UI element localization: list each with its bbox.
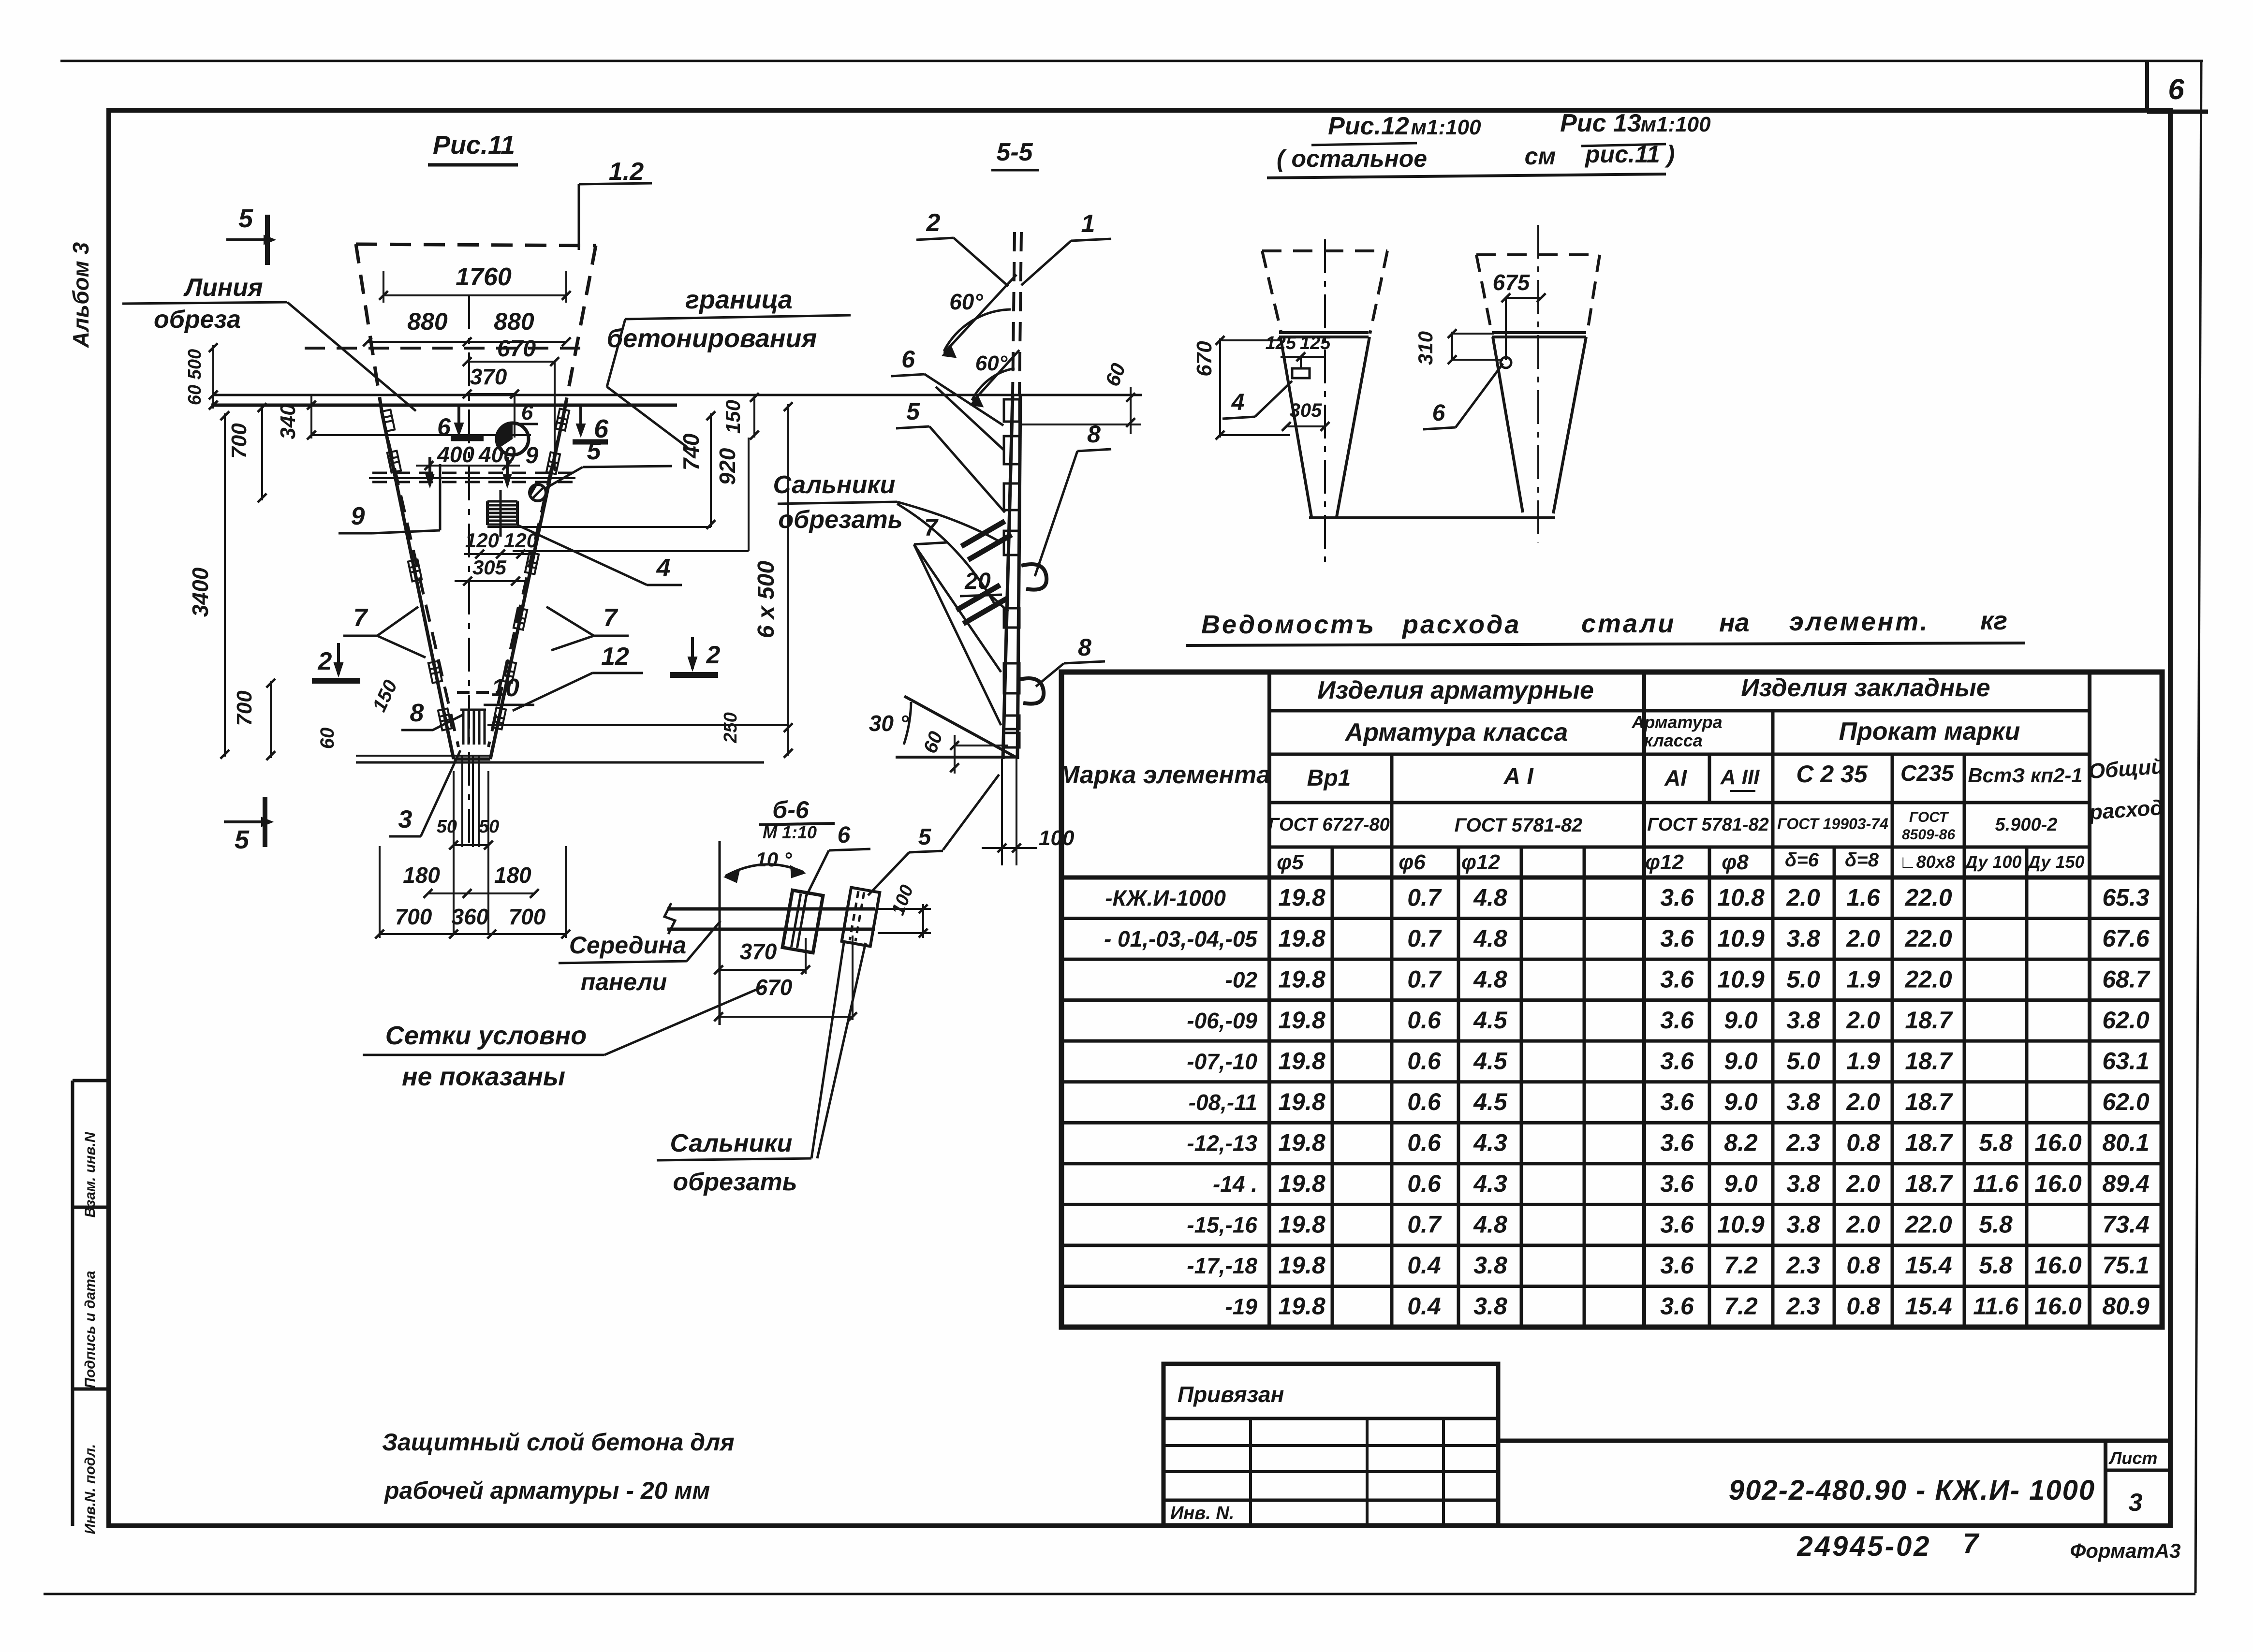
svg-text:1.9: 1.9 (1846, 1047, 1880, 1074)
svg-text:0.8: 0.8 (1846, 1129, 1880, 1156)
svg-text:-02: -02 (1225, 967, 1258, 992)
svg-text:Рис.11: Рис.11 (433, 131, 515, 160)
svg-text:Изделия арматурные: Изделия арматурные (1317, 676, 1594, 704)
svg-text:0.7: 0.7 (1407, 965, 1442, 993)
svg-text:3.8: 3.8 (1786, 1170, 1820, 1197)
svg-text:1760: 1760 (456, 263, 512, 291)
svg-text:18.7: 18.7 (1905, 1007, 1953, 1034)
svg-text:1.6: 1.6 (1846, 884, 1881, 911)
svg-text:2.0: 2.0 (1846, 1088, 1880, 1115)
svg-text:А I: А I (1503, 764, 1534, 789)
svg-text:Арматура класса: Арматура класса (1344, 718, 1568, 746)
svg-text:30 °: 30 ° (869, 711, 909, 736)
svg-text:180: 180 (494, 863, 531, 888)
svg-text:9: 9 (526, 443, 539, 468)
svg-text:3.6: 3.6 (1660, 1293, 1694, 1320)
svg-text:3.6: 3.6 (1660, 1088, 1694, 1115)
svg-text:310: 310 (1414, 331, 1437, 365)
svg-text:0.8: 0.8 (1846, 1252, 1880, 1279)
svg-text:10.9: 10.9 (1717, 925, 1765, 952)
svg-text:125: 125 (1266, 333, 1296, 353)
svg-text:11.6: 11.6 (1973, 1293, 2019, 1320)
svg-text:3.8: 3.8 (1786, 925, 1820, 952)
svg-text:7: 7 (604, 604, 618, 632)
svg-text:-12,-13: -12,-13 (1187, 1131, 1257, 1156)
svg-text:5.8: 5.8 (1979, 1129, 2013, 1156)
svg-text:0.7: 0.7 (1407, 1211, 1442, 1238)
svg-text:250: 250 (721, 712, 741, 743)
svg-text:22.0: 22.0 (1904, 1211, 1952, 1238)
svg-text:Сальники: Сальники (773, 471, 896, 499)
svg-text:4.5: 4.5 (1473, 1047, 1508, 1074)
svg-text:5.8: 5.8 (1979, 1252, 2013, 1279)
svg-text:11.6: 11.6 (1973, 1170, 2019, 1197)
svg-text:4.8: 4.8 (1473, 965, 1507, 993)
svg-text:15.4: 15.4 (1905, 1252, 1952, 1279)
svg-text:1: 1 (1081, 210, 1095, 238)
svg-text:18.7: 18.7 (1905, 1088, 1953, 1115)
svg-text:обрезать: обрезать (778, 506, 902, 534)
svg-text:Арматура: Арматура (1631, 712, 1722, 732)
svg-text:Прокат марки: Прокат марки (1839, 717, 2020, 746)
svg-text:Привязан: Привязан (1178, 1382, 1284, 1407)
svg-text:ГОСТ: ГОСТ (1909, 809, 1949, 825)
svg-text:6: 6 (521, 401, 533, 424)
svg-text:16.0: 16.0 (2034, 1170, 2082, 1197)
svg-text:9.0: 9.0 (1724, 1007, 1758, 1034)
svg-text:6 x 500: 6 x 500 (753, 561, 779, 638)
svg-text:19.8: 19.8 (1278, 965, 1325, 993)
svg-text:3.6: 3.6 (1660, 965, 1694, 993)
svg-text:902-2-480.90 - КЖ.И- 1000: 902-2-480.90 - КЖ.И- 1000 (1729, 1475, 2095, 1506)
svg-text:7.2: 7.2 (1724, 1252, 1758, 1279)
svg-text:0.6: 0.6 (1407, 1047, 1442, 1074)
svg-text:4.8: 4.8 (1473, 925, 1507, 952)
svg-text:60 500: 60 500 (185, 349, 205, 405)
svg-text:60: 60 (317, 728, 338, 749)
svg-text:расхода: расхода (1401, 610, 1521, 639)
svg-text:-15,-16: -15,-16 (1187, 1213, 1257, 1238)
svg-text:10.9: 10.9 (1717, 965, 1765, 993)
svg-text:700: 700 (395, 904, 432, 929)
svg-text:2.0: 2.0 (1846, 1007, 1880, 1034)
svg-text:305: 305 (472, 556, 507, 579)
svg-text:12: 12 (601, 643, 629, 671)
svg-text:2: 2 (926, 209, 941, 237)
svg-text:2.3: 2.3 (1786, 1293, 1820, 1320)
svg-text:Сетки условно: Сетки условно (385, 1021, 587, 1050)
svg-text:5.8: 5.8 (1979, 1211, 2013, 1238)
svg-text:0.7: 0.7 (1407, 925, 1442, 952)
svg-text:φ12: φ12 (1645, 850, 1684, 874)
svg-text:0.4: 0.4 (1407, 1293, 1441, 1320)
svg-text:19.8: 19.8 (1278, 884, 1325, 911)
svg-text:φ5: φ5 (1277, 850, 1304, 874)
svg-text:60°: 60° (949, 289, 983, 314)
svg-text:-КЖ.И-1000: -КЖ.И-1000 (1105, 885, 1226, 910)
svg-text:4.3: 4.3 (1473, 1129, 1507, 1156)
svg-text:0.6: 0.6 (1407, 1007, 1442, 1034)
svg-text:2.0: 2.0 (1846, 925, 1880, 952)
svg-text:Инв. N.: Инв. N. (1170, 1503, 1234, 1523)
svg-text:ГОСТ 5781-82: ГОСТ 5781-82 (1455, 815, 1583, 836)
svg-text:75.1: 75.1 (2102, 1252, 2149, 1279)
svg-text:4.8: 4.8 (1473, 1211, 1507, 1238)
svg-text:8: 8 (1078, 634, 1091, 661)
svg-text:δ=8: δ=8 (1845, 849, 1879, 871)
svg-text:Изделия закладные: Изделия закладные (1741, 674, 1990, 702)
svg-text:Подпись и дата: Подпись и дата (82, 1271, 98, 1388)
svg-text:м1:100: м1:100 (1411, 116, 1481, 139)
svg-text:6: 6 (1432, 400, 1445, 426)
svg-text:700: 700 (233, 690, 256, 726)
svg-text:С 2 35: С 2 35 (1796, 760, 1868, 788)
svg-text:ФорматА3: ФорматА3 (2070, 1539, 2180, 1562)
svg-text:10.8: 10.8 (1717, 884, 1765, 911)
svg-text:670: 670 (497, 336, 536, 362)
svg-text:ГОСТ 5781-82: ГОСТ 5781-82 (1647, 815, 1769, 835)
svg-text:4.5: 4.5 (1473, 1007, 1508, 1034)
svg-text:5-5: 5-5 (996, 138, 1033, 166)
svg-text:5: 5 (918, 824, 932, 850)
svg-text:панели: панели (581, 968, 667, 995)
svg-text:3.8: 3.8 (1786, 1211, 1820, 1238)
svg-text:2.0: 2.0 (1846, 1211, 1880, 1238)
svg-text:80.1: 80.1 (2102, 1129, 2149, 1156)
svg-text:Взам. инв.N: Взам. инв.N (82, 1131, 98, 1217)
svg-text:7: 7 (924, 514, 939, 541)
svg-text:стали: стали (1581, 609, 1676, 638)
svg-text:кг: кг (1980, 606, 2007, 635)
svg-text:5.0: 5.0 (1786, 965, 1820, 993)
svg-text:19.8: 19.8 (1278, 1129, 1325, 1156)
svg-text:граница: граница (685, 285, 793, 314)
svg-text:см: см (1525, 143, 1556, 170)
svg-text:АI: АI (1664, 765, 1687, 790)
svg-text:19.8: 19.8 (1278, 1170, 1325, 1197)
svg-text:-14 .: -14 . (1213, 1171, 1257, 1197)
svg-text:Защитный слой бетона для: Защитный слой бетона для (382, 1429, 735, 1456)
svg-text:6: 6 (2168, 73, 2184, 105)
svg-text:А III: А III (1720, 765, 1760, 789)
svg-text:3.6: 3.6 (1660, 925, 1694, 952)
svg-text:5: 5 (238, 204, 253, 233)
svg-text:19.8: 19.8 (1278, 925, 1325, 952)
svg-text:ГОСТ 19903-74: ГОСТ 19903-74 (1777, 815, 1888, 833)
svg-text:б-6: б-6 (772, 796, 810, 823)
svg-text:на: на (1719, 608, 1750, 637)
svg-text:740: 740 (678, 433, 704, 470)
svg-text:Рис.12: Рис.12 (1328, 112, 1409, 140)
svg-text:-08,-11: -08,-11 (1189, 1090, 1257, 1115)
svg-text:9.0: 9.0 (1724, 1088, 1758, 1115)
svg-text:0.7: 0.7 (1407, 884, 1442, 911)
svg-text:0.6: 0.6 (1407, 1129, 1442, 1156)
svg-text:-17,-18: -17,-18 (1187, 1253, 1257, 1278)
svg-text:М 1:10: М 1:10 (763, 822, 817, 842)
svg-text:( остальное: ( остальное (1277, 145, 1427, 172)
svg-text:Инв.N. подл.: Инв.N. подл. (82, 1444, 98, 1535)
svg-text:2.3: 2.3 (1786, 1252, 1820, 1279)
svg-text:рабочей арматуры - 20 мм: рабочей арматуры - 20 мм (383, 1477, 710, 1504)
svg-text:Середина: Середина (569, 932, 686, 959)
svg-text:4.8: 4.8 (1473, 884, 1507, 911)
svg-text:10.9: 10.9 (1717, 1211, 1765, 1238)
svg-text:3.8: 3.8 (1786, 1088, 1820, 1115)
svg-text:80.9: 80.9 (2102, 1293, 2150, 1320)
svg-text:65.3: 65.3 (2102, 884, 2150, 911)
svg-text:8509-86: 8509-86 (1902, 827, 1955, 843)
svg-text:360: 360 (452, 904, 489, 929)
svg-text:675: 675 (1493, 270, 1531, 295)
svg-text:19.8: 19.8 (1278, 1211, 1325, 1238)
svg-text:7: 7 (353, 604, 368, 632)
svg-text:0.4: 0.4 (1407, 1252, 1441, 1279)
svg-text:3400: 3400 (188, 567, 213, 617)
svg-text:15.4: 15.4 (1905, 1293, 1952, 1320)
svg-text:4.3: 4.3 (1473, 1170, 1507, 1197)
svg-text:10: 10 (491, 674, 519, 702)
svg-text:73.4: 73.4 (2102, 1211, 2149, 1238)
svg-text:670: 670 (755, 975, 793, 1000)
svg-text:Сальники: Сальники (670, 1129, 793, 1157)
svg-text:φ12: φ12 (1461, 850, 1500, 874)
svg-text:24945-02: 24945-02 (1797, 1531, 1931, 1562)
svg-text:3.8: 3.8 (1473, 1293, 1507, 1320)
svg-text:класса: класса (1644, 731, 1703, 750)
svg-text:Рис 13: Рис 13 (1560, 109, 1641, 137)
svg-text:1.2: 1.2 (609, 158, 644, 186)
svg-text:Линия: Линия (183, 274, 263, 302)
svg-text:Альбом 3: Альбом 3 (68, 242, 93, 349)
svg-text:670: 670 (1193, 341, 1216, 377)
svg-text:67.6: 67.6 (2102, 925, 2150, 952)
svg-text:6: 6 (594, 414, 609, 443)
svg-text:обреза: обреза (154, 306, 241, 334)
svg-text:4: 4 (1231, 390, 1245, 415)
svg-text:С235: С235 (1900, 760, 1954, 786)
svg-text:не показаны: не показаны (402, 1062, 565, 1091)
svg-text:125: 125 (1300, 333, 1331, 353)
svg-text:62.0: 62.0 (2102, 1088, 2150, 1115)
svg-text:3.6: 3.6 (1660, 1252, 1694, 1279)
svg-text:19.8: 19.8 (1278, 1047, 1325, 1074)
svg-text:16.0: 16.0 (2034, 1252, 2082, 1279)
svg-text:7: 7 (1963, 1528, 1980, 1559)
svg-text:5.0: 5.0 (1786, 1047, 1820, 1074)
svg-text:3.8: 3.8 (1786, 1007, 1820, 1034)
svg-text:370: 370 (740, 939, 777, 964)
svg-text:4.5: 4.5 (1473, 1088, 1508, 1115)
svg-text:22.0: 22.0 (1904, 965, 1952, 993)
svg-text:- 01,-03,-04,-05: - 01,-03,-04,-05 (1104, 926, 1258, 951)
svg-text:19.8: 19.8 (1278, 1088, 1325, 1115)
svg-text:9.0: 9.0 (1724, 1170, 1758, 1197)
svg-text:3.6: 3.6 (1660, 884, 1694, 911)
svg-text:бетонирования: бетонирования (607, 324, 817, 353)
svg-text:370: 370 (470, 364, 507, 389)
svg-text:-06,-09: -06,-09 (1187, 1008, 1257, 1033)
svg-text:9: 9 (351, 502, 365, 530)
svg-text:68.7: 68.7 (2102, 965, 2150, 993)
svg-text:22.0: 22.0 (1904, 884, 1952, 911)
svg-text:-19: -19 (1225, 1294, 1258, 1319)
svg-text:16.0: 16.0 (2034, 1293, 2082, 1320)
svg-text:5: 5 (235, 825, 250, 854)
svg-text:Марка элемента: Марка элемента (1059, 761, 1270, 789)
svg-text:700: 700 (509, 904, 546, 929)
svg-text:19.8: 19.8 (1278, 1252, 1325, 1279)
svg-text:м1:100: м1:100 (1640, 113, 1711, 136)
svg-text:5.900-2: 5.900-2 (1995, 815, 2058, 835)
svg-text:ВстЗ кп2-1: ВстЗ кп2-1 (1968, 764, 2082, 787)
svg-text:Лист: Лист (2108, 1448, 2158, 1468)
svg-text:δ=6: δ=6 (1785, 849, 1819, 871)
svg-text:18.7: 18.7 (1905, 1047, 1953, 1074)
svg-text:φ8: φ8 (1722, 850, 1749, 874)
svg-text:880: 880 (407, 308, 448, 335)
svg-text:3: 3 (398, 805, 412, 833)
svg-text:0.6: 0.6 (1407, 1170, 1442, 1197)
svg-text:700: 700 (227, 423, 251, 459)
svg-text:4: 4 (656, 554, 671, 582)
svg-text:2.3: 2.3 (1786, 1129, 1820, 1156)
svg-text:18.7: 18.7 (1905, 1170, 1953, 1197)
svg-text:8: 8 (410, 699, 424, 727)
svg-text:3.6: 3.6 (1660, 1007, 1694, 1034)
svg-text:305: 305 (1290, 400, 1322, 421)
svg-text:элемент.: элемент. (1789, 607, 1929, 636)
svg-text:120: 120 (465, 529, 499, 552)
svg-text:-07,-10: -07,-10 (1187, 1049, 1257, 1074)
svg-text:3.6: 3.6 (1660, 1170, 1694, 1197)
svg-text:6: 6 (838, 822, 851, 848)
svg-text:89.4: 89.4 (2102, 1170, 2149, 1197)
svg-text:100: 100 (1039, 826, 1075, 850)
svg-text:5: 5 (906, 398, 920, 425)
svg-text:2: 2 (706, 641, 721, 669)
svg-text:340: 340 (276, 404, 300, 439)
svg-text:150: 150 (722, 400, 744, 434)
svg-text:920: 920 (715, 448, 740, 485)
svg-text:Вр1: Вр1 (1307, 765, 1351, 791)
svg-text:2.0: 2.0 (1786, 884, 1820, 911)
svg-text:ГОСТ 6727-80: ГОСТ 6727-80 (1268, 815, 1390, 835)
svg-text:880: 880 (494, 308, 534, 335)
svg-text:6: 6 (437, 413, 451, 440)
svg-text:22.0: 22.0 (1904, 925, 1952, 952)
svg-text:0.6: 0.6 (1407, 1088, 1442, 1115)
svg-text:63.1: 63.1 (2102, 1047, 2149, 1074)
svg-text:19.8: 19.8 (1278, 1293, 1325, 1320)
svg-text:Ду 150: Ду 150 (2027, 852, 2085, 872)
svg-text:2: 2 (318, 647, 332, 675)
svg-text:φ6: φ6 (1399, 850, 1426, 874)
svg-text:обрезать: обрезать (673, 1168, 797, 1196)
svg-text:0.8: 0.8 (1846, 1293, 1880, 1320)
svg-text:8: 8 (1087, 421, 1101, 448)
svg-text:Ведомостъ: Ведомостъ (1201, 610, 1376, 639)
svg-text:3.6: 3.6 (1660, 1211, 1694, 1238)
svg-text:62.0: 62.0 (2102, 1007, 2150, 1034)
svg-text:8.2: 8.2 (1724, 1129, 1758, 1156)
svg-text:3.8: 3.8 (1473, 1252, 1507, 1279)
svg-text:20: 20 (964, 569, 991, 594)
svg-text:7.2: 7.2 (1724, 1293, 1758, 1320)
svg-text:3.6: 3.6 (1660, 1047, 1694, 1074)
svg-text:6: 6 (901, 346, 915, 373)
svg-text:2.0: 2.0 (1846, 1170, 1880, 1197)
svg-text:16.0: 16.0 (2034, 1129, 2082, 1156)
svg-text:3: 3 (2129, 1489, 2143, 1517)
svg-text:1.9: 1.9 (1846, 965, 1880, 993)
svg-text:180: 180 (403, 863, 440, 888)
svg-text:Ду 100: Ду 100 (1964, 852, 2022, 872)
svg-text:400: 400 (437, 442, 474, 467)
svg-text:9.0: 9.0 (1724, 1047, 1758, 1074)
svg-text:∟80x8: ∟80x8 (1899, 852, 1955, 872)
svg-text:18.7: 18.7 (1905, 1129, 1953, 1156)
svg-text:3.6: 3.6 (1660, 1129, 1694, 1156)
svg-text:19.8: 19.8 (1278, 1007, 1325, 1034)
